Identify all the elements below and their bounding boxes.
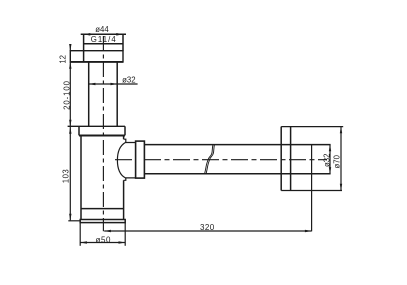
- svg-text:ø32: ø32: [122, 75, 135, 84]
- svg-text:12: 12: [59, 55, 68, 64]
- svg-text:20-100: 20-100: [63, 80, 72, 110]
- svg-text:ø50: ø50: [96, 235, 112, 244]
- svg-text:ø44: ø44: [95, 25, 109, 34]
- svg-text:G11/4: G11/4: [91, 35, 117, 44]
- svg-text:ø32: ø32: [323, 154, 332, 167]
- svg-text:320: 320: [200, 223, 215, 232]
- svg-text:103: 103: [62, 169, 71, 184]
- svg-text:ø70: ø70: [333, 154, 342, 168]
